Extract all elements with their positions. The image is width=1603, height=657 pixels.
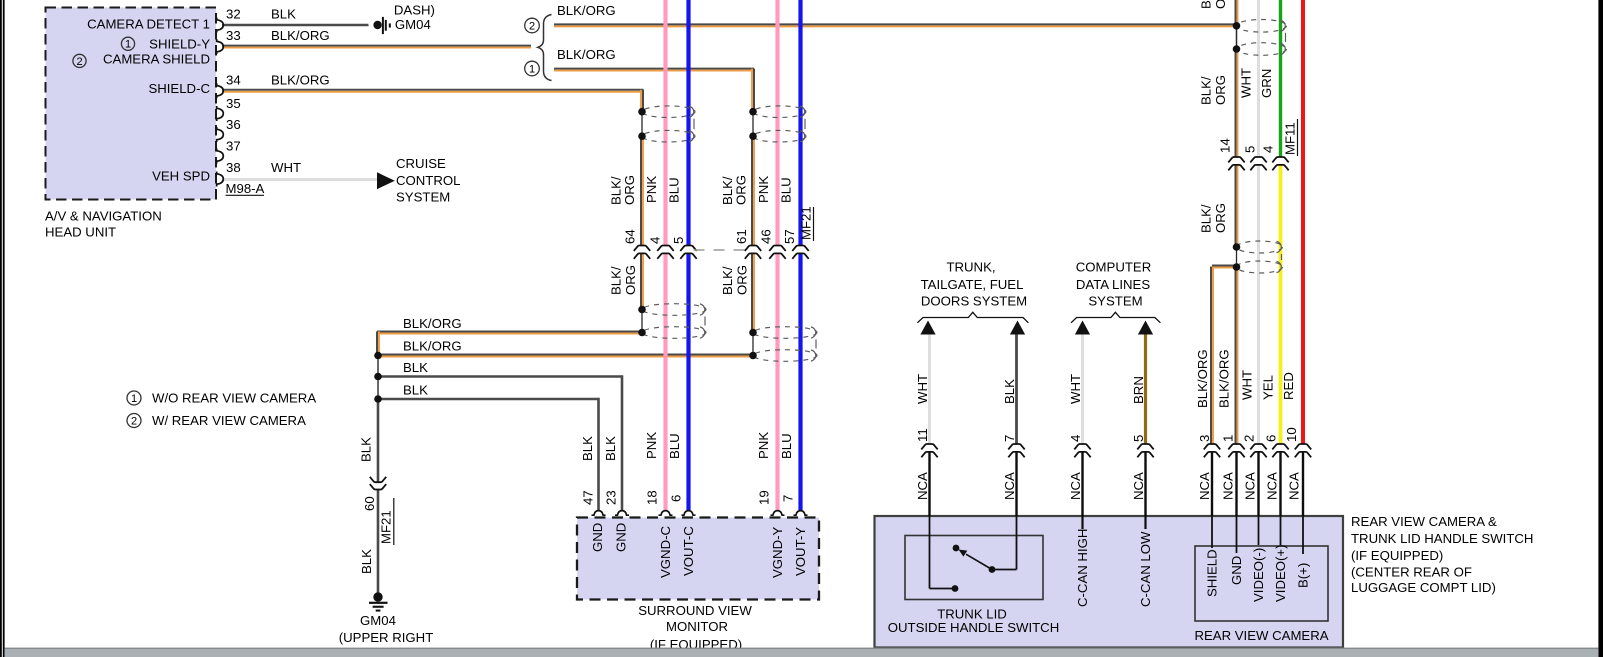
svg-text:CAMERA DETECT 1: CAMERA DETECT 1 xyxy=(87,17,210,32)
legend option 2 xyxy=(127,414,141,428)
svg-text:14: 14 xyxy=(1218,138,1233,153)
shield symbol camera xyxy=(1237,241,1283,253)
wire PNK to monitor VGND-C xyxy=(663,0,667,246)
svg-text:SYSTEM: SYSTEM xyxy=(1088,293,1142,308)
svg-text:3: 3 xyxy=(1197,435,1212,442)
svg-text:BLK/ORG: BLK/ORG xyxy=(403,316,462,331)
connector 60 MF21 on ground wire xyxy=(370,477,386,482)
svg-text:1: 1 xyxy=(131,393,137,405)
svg-text:M98-A: M98-A xyxy=(226,181,265,196)
wire BLU to monitor VOUT-C xyxy=(686,0,690,246)
wire pin32 BLK to GM04 xyxy=(222,24,369,27)
svg-text:60: 60 xyxy=(362,496,377,511)
svg-text:BLK: BLK xyxy=(359,549,374,574)
svg-text:ORG: ORG xyxy=(735,265,750,295)
ground bus BLK/ORG corner segment xyxy=(376,332,378,356)
svg-text:A/V & NAVIGATION: A/V & NAVIGATION xyxy=(45,209,162,224)
wire NCA pin11 into switch box xyxy=(928,452,930,516)
svg-text:BLK/ORG: BLK/ORG xyxy=(271,28,330,43)
svg-text:WHT: WHT xyxy=(271,160,301,175)
svg-text:GRN: GRN xyxy=(1259,69,1274,98)
wire BLK/ORG shield drain upper xyxy=(377,331,642,333)
svg-text:BLU: BLU xyxy=(779,177,794,203)
svg-text:35: 35 xyxy=(226,96,241,111)
svg-text:5: 5 xyxy=(1131,435,1146,442)
svg-text:32: 32 xyxy=(226,7,241,22)
svg-text:7: 7 xyxy=(781,495,796,502)
svg-text:NCA: NCA xyxy=(1068,472,1083,500)
wire NCA camera pin10 B(+) xyxy=(1302,452,1304,516)
shield symbol right lower xyxy=(753,327,817,339)
svg-text:BRN: BRN xyxy=(1131,376,1146,404)
svg-text:5: 5 xyxy=(1243,146,1258,153)
stub camera pin1 inside box xyxy=(1236,516,1238,553)
svg-text:PNK: PNK xyxy=(756,432,771,459)
stub camera pin10 inside box xyxy=(1302,516,1304,554)
svg-text:BLK/ORG: BLK/ORG xyxy=(403,339,462,354)
svg-text:36: 36 xyxy=(226,117,241,132)
svg-text:PNK: PNK xyxy=(644,176,659,203)
svg-text:47: 47 xyxy=(581,490,596,505)
svg-text:10: 10 xyxy=(1284,427,1299,442)
svg-text:WHT: WHT xyxy=(1068,374,1083,404)
connector row camera and switch NCA pins xyxy=(921,444,937,449)
wire pin38 WHT to cruise control xyxy=(222,178,377,181)
svg-text:TRUNK LID HANDLE SWITCH: TRUNK LID HANDLE SWITCH xyxy=(1351,531,1533,546)
svg-text:46: 46 xyxy=(759,229,774,244)
shield symbol left lower xyxy=(642,304,706,316)
svg-text:64: 64 xyxy=(623,229,638,244)
brace wire33 split xyxy=(538,15,552,81)
option marker 1 branch xyxy=(525,61,540,76)
svg-text:VOUT-Y: VOUT-Y xyxy=(793,527,808,576)
svg-text:ORG: ORG xyxy=(1213,0,1228,9)
svg-text:W/O REAR VIEW CAMERA: W/O REAR VIEW CAMERA xyxy=(152,391,316,406)
svg-text:(UPPER RIGHT: (UPPER RIGHT xyxy=(339,630,434,645)
svg-text:CAMERA SHIELD: CAMERA SHIELD xyxy=(103,52,210,67)
switch wire from pin7 xyxy=(1016,516,1018,570)
svg-text:BLK/: BLK/ xyxy=(1199,76,1214,105)
wire BLK/ORG shield drain lower xyxy=(377,354,753,356)
svg-text:RED: RED xyxy=(1281,372,1296,400)
svg-text:HEAD UNIT: HEAD UNIT xyxy=(45,225,116,240)
wire NCA pin5 C-CAN LOW xyxy=(1144,452,1146,516)
svg-text:BLK: BLK xyxy=(1002,379,1017,404)
svg-text:SURROUND VIEW: SURROUND VIEW xyxy=(638,603,752,618)
wire vertical BLK/ORG MF21 pin61 to shield xyxy=(751,254,753,333)
svg-text:ORG: ORG xyxy=(622,175,637,205)
svg-text:VGND-Y: VGND-Y xyxy=(770,527,785,578)
component box: rear view camera xyxy=(1195,546,1328,621)
stub camera pin6 inside box xyxy=(1280,516,1282,545)
component box: rear view camera & trunk lid handle switch assembly xyxy=(875,516,1344,648)
wire BLK ground branch 2 xyxy=(378,398,599,401)
wire BLK connector 60 to GM04 ground xyxy=(377,490,380,596)
svg-text:6: 6 xyxy=(669,495,684,502)
wire BLK monitor GND pin47 xyxy=(597,398,600,510)
svg-text:REAR VIEW CAMERA: REAR VIEW CAMERA xyxy=(1194,628,1328,643)
shield symbol left upper xyxy=(642,106,695,118)
wire BLK trunk system to pin7 xyxy=(1015,334,1018,444)
svg-text:COMPUTER: COMPUTER xyxy=(1076,260,1151,275)
svg-text:GND: GND xyxy=(590,523,605,552)
wire BLK ground branch 1 xyxy=(378,375,622,378)
svg-text:BLK/ORG: BLK/ORG xyxy=(1217,349,1232,408)
svg-text:BLK/: BLK/ xyxy=(720,266,735,295)
svg-text:GM04: GM04 xyxy=(395,17,431,32)
svg-text:4: 4 xyxy=(1261,146,1276,153)
svg-text:CONTROL: CONTROL xyxy=(396,173,460,188)
svg-text:2: 2 xyxy=(76,56,82,68)
shield symbol right upper xyxy=(753,106,806,118)
svg-text:PNK: PNK xyxy=(644,432,659,459)
svg-text:BLU: BLU xyxy=(779,433,794,459)
stub camera pin3 inside box xyxy=(1211,516,1213,548)
svg-text:4: 4 xyxy=(648,237,663,244)
svg-text:SHIELD-Y: SHIELD-Y xyxy=(149,37,210,52)
connector MF21 row pins 64/4/5/61/46/57 xyxy=(634,246,650,251)
svg-text:VOUT-C: VOUT-C xyxy=(681,526,696,576)
svg-text:TRUNK,: TRUNK, xyxy=(946,260,995,275)
component box: surround view monitor xyxy=(577,518,819,600)
svg-text:18: 18 xyxy=(645,490,660,505)
svg-text:BLU: BLU xyxy=(667,177,682,203)
svg-text:MF21: MF21 xyxy=(799,206,814,240)
svg-text:DASH): DASH) xyxy=(394,2,435,17)
wire WHT trunk system to pin11 xyxy=(928,334,931,444)
wire WHT computer data to pin4 xyxy=(1081,334,1084,444)
shield symbol top right xyxy=(1237,20,1287,33)
connector MF21 dashed body line xyxy=(694,249,746,251)
svg-text:2: 2 xyxy=(1242,435,1257,442)
right window edge xyxy=(1598,0,1603,657)
svg-text:MF21: MF21 xyxy=(379,510,394,544)
wire branch 2 BLK/ORG xyxy=(554,23,1237,25)
svg-text:C-CAN LOW: C-CAN LOW xyxy=(1138,531,1153,607)
wire BLU to monitor VOUT-Y xyxy=(798,0,802,246)
svg-text:YEL: YEL xyxy=(1261,375,1276,400)
switch wire from pin11 xyxy=(929,516,931,589)
connector MF11 pins 14/5/4 xyxy=(1228,157,1244,162)
svg-text:ORG: ORG xyxy=(1213,75,1228,105)
svg-text:BLK/: BLK/ xyxy=(609,266,624,295)
svg-text:BLK: BLK xyxy=(359,437,374,462)
component box: A/V & Navigation head unit xyxy=(46,8,217,200)
wire NCA camera pin6 VIDEO(+) xyxy=(1279,452,1281,516)
arrows trunk tailgate fuel doors system xyxy=(920,321,935,335)
svg-text:VGND-C: VGND-C xyxy=(658,526,673,578)
svg-text:1: 1 xyxy=(125,39,131,51)
svg-text:NCA: NCA xyxy=(1131,472,1146,500)
svg-text:(IF EQUIPPED): (IF EQUIPPED) xyxy=(1351,548,1443,563)
svg-text:VIDEO(-): VIDEO(-) xyxy=(1251,548,1266,602)
legend option 1 xyxy=(127,391,141,405)
switch arm with arrowhead xyxy=(966,554,992,569)
svg-text:37: 37 xyxy=(226,139,241,154)
svg-text:VIDEO(+): VIDEO(+) xyxy=(1273,544,1288,602)
svg-text:WHT: WHT xyxy=(1240,370,1255,400)
wire vertical BLK/ORG top to junction xyxy=(1235,0,1237,25)
svg-text:BLK: BLK xyxy=(580,436,595,461)
stub C-CAN HIGH inside box xyxy=(1081,516,1083,529)
svg-text:SHIELD: SHIELD xyxy=(1205,549,1220,597)
wire RED top to camera pin10 xyxy=(1301,0,1305,444)
arrows computer data lines system xyxy=(1075,321,1090,335)
wire jog BLK/ORG camera shield xyxy=(1212,265,1238,267)
svg-text:TAILGATE, FUEL: TAILGATE, FUEL xyxy=(921,277,1024,292)
svg-text:1: 1 xyxy=(1221,435,1236,442)
wire WHT MF11 to camera pin2 xyxy=(1257,165,1260,444)
wire PNK to monitor VGND-Y xyxy=(775,0,779,246)
svg-text:VEH SPD: VEH SPD xyxy=(152,169,210,184)
switch contact dots xyxy=(953,545,960,552)
svg-text:33: 33 xyxy=(226,28,241,43)
svg-text:MF11: MF11 xyxy=(1283,122,1298,155)
svg-text:W/ REAR VIEW CAMERA: W/ REAR VIEW CAMERA xyxy=(152,413,306,428)
wire vertical BLK/ORG MF11 to shield xyxy=(1235,165,1237,247)
svg-text:5: 5 xyxy=(671,237,686,244)
ground GM04 dash (top) xyxy=(373,21,381,29)
svg-text:SYSTEM: SYSTEM xyxy=(396,189,450,204)
thin shield link top right xyxy=(1236,26,1238,49)
left window edge xyxy=(0,0,5,657)
brace computer data lines system xyxy=(1071,312,1160,323)
svg-text:DOORS SYSTEM: DOORS SYSTEM xyxy=(921,293,1027,308)
wire vertical BLK/ORG shield jog to camera pin3 xyxy=(1210,267,1212,445)
svg-text:C-CAN HIGH: C-CAN HIGH xyxy=(1075,529,1090,607)
svg-text:34: 34 xyxy=(226,73,241,88)
svg-text:WHT: WHT xyxy=(915,374,930,404)
svg-text:1: 1 xyxy=(529,63,535,75)
wire vertical BLK/ORG shield to camera pin1 xyxy=(1235,267,1237,444)
wire vertical BLK/ORG junction to MF11 pin14 xyxy=(1235,49,1237,157)
wire NCA pin4 C-CAN HIGH xyxy=(1081,452,1083,516)
svg-text:OUTSIDE HANDLE SWITCH: OUTSIDE HANDLE SWITCH xyxy=(888,620,1059,635)
svg-text:PNK: PNK xyxy=(756,176,771,203)
svg-text:NCA: NCA xyxy=(915,472,930,500)
svg-text:B(+): B(+) xyxy=(1296,563,1311,588)
svg-text:ORG: ORG xyxy=(734,175,749,205)
svg-text:38: 38 xyxy=(226,160,241,175)
svg-text:GM04: GM04 xyxy=(360,613,396,628)
svg-text:ORG: ORG xyxy=(1213,203,1228,233)
stub camera pin2 inside box xyxy=(1258,516,1260,545)
option marker 2 camera shield xyxy=(73,54,86,67)
wire branch 1 BLK/ORG xyxy=(554,68,754,70)
arrow to cruise control system xyxy=(377,172,395,189)
brace trunk system xyxy=(917,312,1028,323)
svg-text:61: 61 xyxy=(734,229,749,244)
svg-text:ORG: ORG xyxy=(623,265,638,295)
bottom scrollbar xyxy=(5,649,1599,657)
svg-text:BLK/ORG: BLK/ORG xyxy=(1195,349,1210,408)
wire NCA pin7 into switch box xyxy=(1015,452,1017,516)
wire WHT top to MF11 pin5 xyxy=(1257,0,1260,157)
wire BLK monitor GND pin23 xyxy=(621,375,624,510)
svg-text:BLK/ORG: BLK/ORG xyxy=(557,47,616,62)
svg-text:NCA: NCA xyxy=(1197,472,1212,500)
svg-text:23: 23 xyxy=(604,490,619,505)
svg-text:LUGGAGE COMPT LID): LUGGAGE COMPT LID) xyxy=(1351,580,1496,595)
wire NCA camera pin3 SHIELD xyxy=(1211,452,1213,516)
wire BRN computer data to pin5 xyxy=(1144,334,1147,444)
wire NCA camera pin2 VIDEO(-) xyxy=(1257,452,1259,516)
ground bus thin junction segment xyxy=(377,356,379,400)
svg-text:11: 11 xyxy=(915,428,930,442)
wire NCA camera pin1 GND xyxy=(1235,452,1237,516)
svg-text:4: 4 xyxy=(1068,435,1083,442)
svg-text:MONITOR: MONITOR xyxy=(666,619,728,634)
svg-text:(CENTER REAR OF: (CENTER REAR OF xyxy=(1351,565,1472,580)
wire BLK bus to connector 60 xyxy=(377,399,380,482)
svg-text:19: 19 xyxy=(757,490,772,505)
option marker 2 branch xyxy=(525,18,540,33)
monitor box pin arcs xyxy=(592,511,606,516)
svg-text:NCA: NCA xyxy=(1265,472,1280,500)
wire vertical BLK/ORG MF21 pin64 to shield xyxy=(640,254,642,310)
component box: trunk lid outside handle switch xyxy=(905,536,1043,600)
svg-text:BLK: BLK xyxy=(403,360,428,375)
wire vertical BLK/ORG pin34 to MF21 pin64 xyxy=(642,90,644,112)
svg-text:CRUISE: CRUISE xyxy=(396,156,446,171)
svg-text:BLK: BLK xyxy=(603,436,618,461)
wire pin33 BLK/ORG to brace xyxy=(222,45,531,47)
svg-text:2: 2 xyxy=(131,415,137,427)
head unit pin arcs 32-38 xyxy=(217,18,224,33)
svg-text:NCA: NCA xyxy=(1221,472,1236,500)
svg-text:2: 2 xyxy=(529,20,535,32)
svg-text:DATA LINES: DATA LINES xyxy=(1076,277,1150,292)
option marker 1 shield-y xyxy=(121,37,134,50)
wire YEL MF11 to camera pin6 xyxy=(1279,165,1283,444)
svg-text:NCA: NCA xyxy=(1243,472,1258,500)
svg-text:NCA: NCA xyxy=(1002,472,1017,500)
svg-text:BLK/: BLK/ xyxy=(1199,0,1214,9)
svg-text:GND: GND xyxy=(1229,556,1244,585)
svg-text:SHIELD-C: SHIELD-C xyxy=(148,81,210,96)
svg-text:6: 6 xyxy=(1264,435,1279,442)
svg-text:BLK/ORG: BLK/ORG xyxy=(557,3,616,18)
svg-text:BLK: BLK xyxy=(271,7,296,22)
svg-text:WHT: WHT xyxy=(1239,68,1254,98)
wire vertical BLK/ORG branch1 to MF21 pin61 xyxy=(753,69,755,112)
junction dots ground bus xyxy=(374,352,382,360)
ground GM04 upper right (bottom) xyxy=(373,592,382,601)
svg-text:BLU: BLU xyxy=(667,433,682,459)
stub C-CAN LOW inside box xyxy=(1144,516,1146,529)
svg-text:57: 57 xyxy=(782,229,797,244)
svg-text:NCA: NCA xyxy=(1287,472,1302,500)
svg-text:REAR VIEW CAMERA &: REAR VIEW CAMERA & xyxy=(1351,514,1497,529)
svg-text:GND: GND xyxy=(614,523,629,552)
svg-text:BLK/: BLK/ xyxy=(1199,204,1214,233)
wire pin34 BLK/ORG xyxy=(222,89,644,91)
svg-text:BLK/ORG: BLK/ORG xyxy=(271,73,330,88)
svg-text:7: 7 xyxy=(1002,435,1017,442)
svg-text:BLK: BLK xyxy=(403,383,428,398)
wire GRN top to MF11 pin4 xyxy=(1279,0,1282,157)
